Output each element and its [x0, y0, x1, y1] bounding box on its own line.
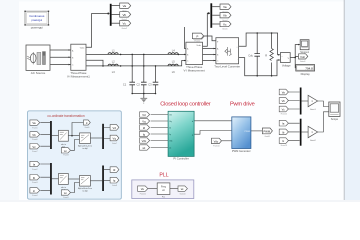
inductor L3 [108, 64, 118, 74]
svg-text:PLL: PLL [162, 197, 165, 199]
svg-text:P: P [196, 34, 198, 38]
junction dot rail C1 [131, 93, 133, 95]
from tag Ib (sub) [30, 175, 40, 185]
junction dot DC plus at Cdc [256, 32, 258, 34]
goto tag d (sub) [84, 120, 91, 129]
junction dot DC minus at Cdc [256, 75, 258, 77]
goto tag Vc1 [120, 21, 131, 30]
three-phase V-I measurement2 block [184, 42, 206, 72]
wire meas2 to converter B [203, 54, 216, 56]
svg-text:Iq: Iq [169, 134, 171, 136]
inductor L1 [108, 49, 118, 55]
block alpha-beta-zero row1 [78, 133, 92, 150]
svg-text:Goto10: Goto10 [180, 193, 186, 196]
block abc to dq0 row2 [59, 174, 69, 192]
wire controller input 3 [151, 127, 168, 129]
from tag Ib (scope) [279, 129, 288, 135]
wire sub demux outs row2 [104, 170, 110, 181]
PWM generator block [232, 117, 251, 153]
junction dot row1 after L4 [178, 54, 180, 56]
wire sub block1 to block2 [68, 135, 79, 137]
wire meas2 to converter C [203, 60, 216, 62]
capacitor C1 [123, 82, 135, 86]
wire Cdc branch [256, 33, 258, 76]
svg-text:From4: From4 [32, 195, 37, 197]
svg-text:Vb: Vb [223, 14, 227, 18]
goto tag Vd [110, 125, 119, 131]
from tag controller in6 [140, 145, 150, 150]
mux scope group1 [300, 88, 302, 115]
goto tag Vdc [299, 54, 308, 63]
wire sub mux2 out [52, 178, 59, 180]
svg-text:Vdc: Vdc [300, 55, 305, 59]
arrowhead into converter C [214, 60, 216, 62]
wire controller input 2 [151, 120, 168, 122]
junction dot row2 after L3 [120, 65, 122, 67]
svg-text:q: q [192, 134, 193, 136]
wire R load branch [271, 33, 273, 76]
wire controller out1 to pwm [194, 120, 231, 122]
wire gain1 to scope [318, 101, 329, 107]
from tag controller in5 [140, 138, 150, 143]
goto tag Va2 [220, 4, 231, 13]
wire gain2 to scope [318, 112, 329, 132]
svg-text:PWM Generator: PWM Generator [232, 149, 251, 153]
powergui block [24, 11, 49, 30]
arrowhead into vmeas plus [278, 54, 280, 56]
svg-text:to dq0: to dq0 [82, 190, 87, 193]
wire vdc tag to pwm [222, 140, 232, 142]
svg-text:Scope: Scope [331, 117, 339, 121]
wire sub block1b to block2b [68, 178, 79, 180]
arrowhead into meas1 C [69, 64, 71, 66]
wire tags group2 to mux [288, 123, 299, 140]
goto tag Iq [110, 177, 119, 187]
wire phase C source to meas1 [50, 64, 71, 66]
junction dot vmeas out [294, 57, 296, 59]
junction dot sub block1 out [71, 135, 73, 137]
wire meas2 input A riser [185, 27, 187, 49]
wires right scope cluster [288, 92, 328, 141]
svg-text:wt: wt [162, 189, 165, 192]
svg-text:Goto9: Goto9 [84, 126, 89, 129]
mux scope group2 [300, 119, 302, 146]
resistor R [265, 49, 273, 61]
wire meas2 Vabc to demux2 [203, 13, 211, 46]
svg-text:Va: Va [32, 121, 36, 125]
svg-text:Vb: Vb [122, 13, 126, 17]
junction dot row2 at C2 crossing [143, 65, 145, 67]
wire demux2 out2 [212, 14, 220, 16]
svg-text:PI Controller: PI Controller [173, 156, 189, 160]
wire PWM from-tag to converter g [204, 36, 216, 41]
wire mux2 to gain [302, 131, 308, 133]
wire cap branch C3 [155, 66, 157, 94]
block abc to dq0 row1 [59, 130, 69, 148]
from tag wt row1 [61, 148, 70, 157]
from tag Vb (scope) [279, 98, 288, 104]
svg-text:Goto7: Goto7 [112, 142, 117, 145]
gain1 [308, 95, 318, 111]
wire pll out [170, 188, 178, 190]
wire demux2 out3 [212, 23, 220, 25]
canvas right edge line [343, 0, 345, 202]
svg-text:Vb: Vb [32, 133, 36, 137]
junction dot demux2 input [208, 12, 210, 14]
junction dot row2 at b-join [102, 65, 104, 67]
scope block [329, 102, 340, 121]
from tag PWM (converter gate) [192, 33, 204, 43]
wire meas1 b output down to row2 [86, 60, 103, 66]
svg-text:Vd: Vd [113, 126, 117, 130]
junction dot rail center [143, 93, 145, 95]
from tag Ia (scope) [279, 120, 288, 126]
goto tag Vq [110, 135, 119, 145]
wire filter row1 [86, 53, 186, 55]
svg-text:wt: wt [143, 146, 146, 150]
svg-text:co-ordinate transformation: co-ordinate transformation [47, 114, 84, 118]
svg-text:From9: From9 [63, 197, 68, 199]
wire sub block2b to demux2 [91, 180, 103, 182]
svg-text:PWM: PWM [264, 129, 271, 133]
svg-text:C1: C1 [123, 83, 127, 87]
PLL box [132, 180, 194, 199]
demux sub row1 [102, 124, 104, 149]
junction dot DC minus at R [271, 75, 273, 77]
wire cap branch C2 [143, 54, 145, 93]
wire tags group1 to mux [288, 92, 299, 109]
svg-text:Goto6: Goto6 [300, 60, 306, 63]
ground [140, 98, 147, 103]
wire pll in [148, 188, 157, 190]
from tag Ia (sub) [30, 161, 40, 171]
svg-text:Pwm drive: Pwm drive [230, 102, 255, 108]
svg-text:From13: From13 [281, 145, 287, 147]
from tag controller in4 [140, 131, 150, 136]
svg-text:wt: wt [181, 187, 184, 191]
arrowhead into converter B [214, 54, 216, 56]
wire controller out2 to pwm [194, 131, 231, 135]
svg-text:Closed loop controller: Closed loop controller [160, 102, 210, 108]
svg-text:Gain1: Gain1 [310, 109, 317, 111]
svg-text:C2: C2 [137, 83, 141, 87]
junction dot DC plus at R [271, 32, 273, 34]
voltage measurement block [280, 53, 291, 68]
svg-text:Vd: Vd [169, 115, 171, 117]
wire controller input 4 [151, 133, 168, 135]
from tag wt row2 [61, 190, 70, 199]
right panel strip [345, 0, 360, 202]
junction dot row2 at C3 [155, 65, 157, 67]
goto tag wt (pll) [178, 186, 187, 196]
junction dot row1 at C2 [143, 54, 145, 56]
demux2 [210, 3, 212, 28]
from tag controller in2 [140, 118, 150, 123]
svg-text:From5: From5 [32, 127, 37, 129]
wire cap branch C1 [131, 54, 133, 93]
from tag Vabc (pll) [138, 186, 148, 196]
svg-text:From12: From12 [281, 114, 287, 116]
svg-text:Two-Level Converter: Two-Level Converter [214, 64, 240, 68]
wire meas2 to converter A [203, 48, 216, 50]
svg-text:Goto8: Goto8 [112, 184, 117, 187]
three-phase V-I measurement1 block [67, 44, 90, 78]
bottom strip [0, 200, 360, 202]
mux sub row2 [50, 163, 52, 195]
svg-text:Vc: Vc [223, 22, 227, 26]
junction dot demux1 input [107, 13, 109, 15]
svg-text:powergui: powergui [32, 18, 43, 22]
svg-text:Scope1: Scope1 [300, 50, 309, 54]
goto tag Vb1 [120, 12, 131, 21]
svg-text:Vdc: Vdc [142, 139, 147, 143]
wire pwm out to goto [251, 130, 262, 132]
inductor L4 [168, 49, 178, 55]
junction dot row2 at C1 crossing [131, 65, 133, 67]
arrowhead into meas2 B [184, 54, 186, 56]
two-level converter block [214, 38, 240, 69]
capacitor C2 [137, 82, 147, 86]
top margin strip [0, 0, 360, 2]
display block [296, 65, 315, 76]
svg-text:Goto5: Goto5 [222, 28, 228, 31]
wire demux2 out1 [212, 6, 220, 8]
AC source block [26, 45, 50, 75]
wire vmeas output to scope/goto/display [290, 45, 300, 68]
arrowhead into meas2 C [184, 60, 186, 62]
scope1 [300, 40, 309, 54]
wire capacitor bottom rail [132, 93, 155, 95]
wire controller input 1 [151, 114, 168, 116]
capacitor Cdc [248, 53, 260, 57]
wire sub block2 to demux [91, 137, 103, 139]
svg-text:Vc: Vc [123, 22, 127, 26]
wire DC plus rail [239, 33, 280, 55]
svg-text:AC Source: AC Source [31, 71, 46, 75]
svg-text:wt: wt [64, 191, 67, 195]
wire sub tags row2 to mux [40, 164, 50, 190]
svg-text:Vdc: Vdc [169, 141, 172, 143]
wire sub wt tag row1 [71, 140, 80, 151]
from tag Ic (scope) [279, 138, 288, 147]
svg-text:Id: Id [169, 128, 171, 130]
from tag Ic (sub) [30, 188, 40, 198]
svg-text:V-I Measurement: V-I Measurement [184, 69, 206, 73]
svg-text:Gain2: Gain2 [310, 140, 317, 142]
wire sub demux outs row1 [104, 128, 110, 139]
gain2 [308, 126, 318, 142]
capacitor C3 [148, 82, 158, 86]
from tag Va (sub) [30, 120, 40, 129]
svg-text:Vq: Vq [142, 120, 146, 124]
goto tag Vc2 [220, 21, 231, 30]
svg-text:Goto2: Goto2 [122, 27, 128, 30]
svg-text:Va: Va [123, 4, 127, 8]
svg-text:From10: From10 [213, 146, 219, 148]
svg-text:Voltage: Voltage [282, 63, 291, 67]
from tag Vdc (pwm input) [212, 138, 222, 147]
wire DC minus rail [239, 58, 280, 76]
arrowhead into converter A [214, 48, 216, 50]
svg-text:PWM: PWM [244, 131, 250, 133]
svg-text:Vq: Vq [113, 137, 117, 141]
svg-text:PLL: PLL [159, 172, 168, 178]
subsystem abc-dq0 transformation box [28, 111, 122, 199]
wire phase A source to meas1 [50, 49, 71, 51]
wire mux1 to gain [302, 100, 308, 102]
svg-text:From1: From1 [195, 41, 202, 43]
arrowhead into vmeas minus [278, 59, 280, 61]
svg-text:d: d [192, 121, 193, 123]
svg-text:Cdc: Cdc [248, 53, 253, 57]
svg-text:R: R [265, 53, 267, 57]
arrowhead into meas1 B [69, 56, 71, 58]
mux sub row1 [50, 121, 52, 149]
wire sub tags row1 to mux [40, 123, 50, 147]
PLL block [157, 183, 170, 199]
wire demux1 out2 [112, 13, 120, 15]
wire sub mux1 out [52, 135, 59, 137]
svg-text:to dq0: to dq0 [82, 147, 87, 150]
junction dot row1 at C1 [131, 54, 133, 56]
svg-text:C3: C3 [148, 83, 152, 87]
junction dot row1 after L1 [120, 54, 122, 56]
svg-text:Vdc: Vdc [214, 139, 219, 143]
svg-text:From3: From3 [32, 182, 37, 184]
svg-text:Vq: Vq [169, 121, 171, 123]
svg-text:Vb: Vb [282, 99, 286, 103]
wire sub up to goto d [72, 123, 83, 136]
svg-text:Display: Display [301, 72, 311, 76]
svg-text:Va: Va [223, 5, 227, 9]
svg-text:From11: From11 [140, 194, 146, 196]
svg-text:Continuous: Continuous [29, 14, 45, 18]
wire phase B source to meas1 [50, 56, 71, 58]
goto tag PWM [262, 128, 272, 138]
from tag controller in1 [140, 112, 150, 117]
svg-text:Vd: Vd [142, 113, 146, 117]
goto tag Va1 [120, 3, 131, 12]
svg-text:wt: wt [64, 149, 67, 153]
arrowhead into scope1 [298, 44, 300, 46]
arrowhead into meas1 A [69, 49, 71, 51]
goto tag Vb2 [220, 13, 231, 22]
svg-text:Goto11: Goto11 [265, 135, 271, 138]
PI controller block [168, 111, 194, 160]
inductor L6 [168, 64, 178, 74]
from tag Vb (sub) [30, 132, 40, 142]
wire rail to ground [143, 94, 145, 99]
wire filter row2 [86, 61, 186, 66]
svg-text:From2: From2 [32, 169, 37, 171]
svg-text:powergui: powergui [31, 26, 44, 30]
wire sub wt tag row2 [71, 183, 80, 193]
demux sub row2 [102, 166, 104, 192]
svg-text:From8: From8 [63, 155, 68, 157]
block alpha-beta-zero row2 [78, 176, 92, 193]
from tag Vc (sub) [30, 144, 40, 154]
wire demux1 out1 [112, 5, 120, 7]
junction dot rail C3 [155, 93, 157, 95]
demux1 [110, 4, 112, 26]
wire controller input 6 [151, 147, 168, 149]
wire demux1 out3 [112, 22, 120, 24]
wire Vabc meas1 to demux1 [86, 14, 110, 48]
svg-text:V-I Measurement1: V-I Measurement1 [67, 75, 90, 79]
from tag Va (scope) [279, 89, 288, 95]
left margin strip [0, 0, 19, 202]
from tag Vc (scope) [279, 106, 288, 115]
wire controller input 5 [151, 140, 168, 142]
goto tag Id [110, 167, 119, 173]
svg-text:794.8: 794.8 [305, 66, 313, 70]
svg-text:From7: From7 [32, 151, 37, 153]
from tag controller in3 [140, 125, 150, 130]
svg-text:From6: From6 [32, 139, 37, 141]
